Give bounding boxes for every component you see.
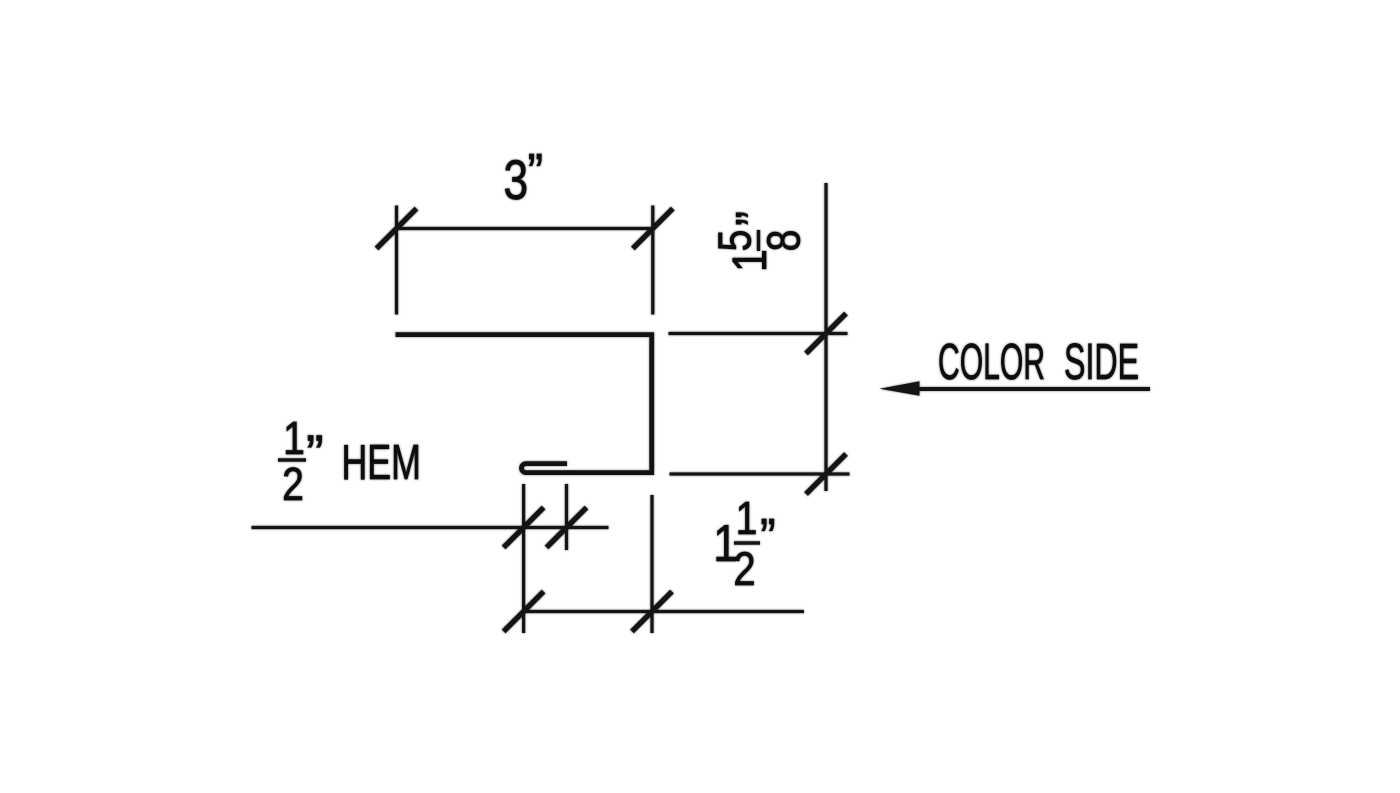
soft halo underlay of drawing — [252, 144, 1151, 633]
crisp overlay of drawing — [252, 144, 1151, 633]
